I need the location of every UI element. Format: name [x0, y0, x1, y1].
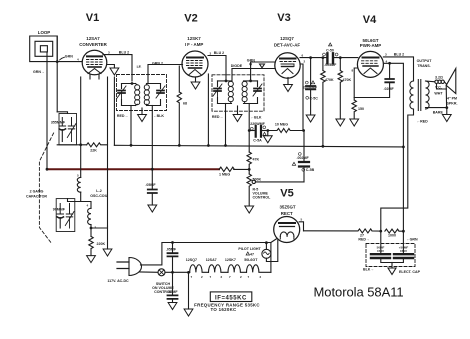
svg-text:CONTROL: CONTROL [253, 196, 272, 200]
IF transformer T1 shield box [117, 75, 167, 111]
wire V1 plate BLU to T1 [103, 55, 132, 81]
tube V2 12SK7 IF amp [182, 51, 208, 77]
line capacitor .05MF to ground [168, 295, 178, 299]
svg-text:DIODE: DIODE [231, 64, 243, 68]
ground V2 cathode [195, 77, 197, 82]
svg-text:C-5B: C-5B [306, 168, 315, 172]
node AVC line left end [46, 168, 49, 171]
svg-text:L-2: L-2 [96, 189, 101, 193]
wire plug upper to bus [141, 243, 271, 265]
node B+ bus right end [402, 146, 405, 149]
wire T2 secondary bottom BLK [248, 104, 250, 153]
svg-text:GRN→: GRN→ [33, 70, 45, 74]
svg-text:C-50: C-50 [326, 49, 334, 53]
wire V1 osc grid down [80, 77, 82, 177]
svg-text:470K: 470K [343, 78, 352, 82]
wire T1 secondary bottom BLK to AVC [151, 106, 153, 190]
svg-text:220WMF: 220WMF [250, 122, 265, 126]
ground V2 [191, 82, 200, 89]
resistor 10 MEG [268, 129, 303, 133]
2-gang tuning: antenna section 355MMF [59, 114, 77, 145]
node AC bus / line capacitor [171, 241, 174, 244]
svg-text:BARE: BARE [433, 111, 444, 115]
svg-text:500K: 500K [253, 178, 262, 182]
resistor 27 [304, 229, 381, 233]
wire V4 plate BLU to output transformer [383, 57, 413, 81]
capacitor C-50 .005MF [327, 53, 333, 63]
wire loop bottom to AVC line [46, 62, 48, 170]
capacitor C-5C 200MMF [310, 58, 312, 86]
pin number labels [77, 51, 388, 279]
ground speaker frame [442, 115, 451, 122]
ground V4 cathode [350, 119, 359, 126]
svg-text:22K: 22K [90, 149, 97, 153]
svg-text:←GRN: ←GRN [406, 238, 418, 242]
svg-text:.05MF: .05MF [145, 183, 156, 187]
electrolytic +50MF [394, 254, 413, 258]
svg-text:OSC-COIL: OSC-COIL [90, 194, 108, 198]
wire V5 cathode to filter [299, 222, 303, 231]
svg-text:68: 68 [183, 102, 187, 106]
svg-text:I.F.: I.F. [137, 65, 142, 69]
svg-text:3.2Ω: 3.2Ω [435, 75, 443, 79]
wire V2 plate BLU to T2 [208, 56, 226, 81]
svg-text:TRANS.: TRANS. [417, 64, 430, 68]
svg-text:←BLK: ←BLK [153, 114, 164, 118]
svg-text:90MMF: 90MMF [53, 208, 66, 212]
node 470K grid top [339, 56, 342, 59]
svg-text:12SA7: 12SA7 [86, 36, 100, 41]
svg-text:RED→: RED→ [212, 115, 223, 119]
svg-text:ELECT. CAP: ELECT. CAP [399, 270, 421, 274]
wire V2 screen to B+ bus [207, 74, 209, 146]
speaker cone [446, 69, 456, 94]
svg-text:12SQ7: 12SQ7 [186, 258, 197, 262]
resistor 1000 [385, 229, 404, 233]
wire V4 screen to B+ [384, 63, 403, 231]
svg-text:12SK7: 12SK7 [187, 36, 201, 41]
svg-text:WHT: WHT [434, 91, 443, 95]
svg-text:200MMF: 200MMF [303, 85, 318, 89]
node AVC / volume control [248, 168, 251, 171]
capacitor C-5A 220MMF [249, 130, 254, 132]
pilot light [265, 243, 267, 250]
svg-text:470K: 470K [325, 78, 334, 82]
node B+ after filter [402, 230, 405, 233]
heater filament 12SA7 [209, 265, 229, 273]
wire heater string to ground [188, 272, 190, 309]
svg-text:GRN: GRN [65, 55, 73, 59]
wire V3 second diode line [232, 69, 275, 81]
B+ bus [114, 145, 403, 147]
line capacitor .05MF series [172, 243, 174, 254]
svg-text:35Z5GT: 35Z5GT [279, 205, 295, 210]
ground T2 center [233, 115, 242, 122]
wire V1 osc anode down [107, 77, 109, 226]
svg-text:12SK7: 12SK7 [225, 258, 236, 262]
tube V4 50L6GT pwr amp [357, 51, 383, 77]
svg-text:DET-AVC-AF: DET-AVC-AF [274, 42, 301, 47]
node V2 screen on B+ bus [207, 144, 210, 147]
svg-text:V.C.: V.C. [435, 86, 442, 90]
ground T2 center tap [237, 106, 239, 115]
IF frequency box [194, 292, 260, 312]
T1 primary: trimmer capacitor [117, 84, 136, 106]
svg-text:RED→: RED→ [117, 114, 128, 118]
heater filament 12SK7 [228, 265, 247, 273]
ground at V1 cathode [110, 68, 119, 75]
svg-text:←BLK: ←BLK [251, 116, 262, 120]
2-gang tuning: oscillator section 90MMF [56, 199, 75, 232]
node C-5A left [248, 129, 251, 132]
svg-text:GRN 2: GRN 2 [152, 61, 163, 65]
ground at V1 [107, 65, 115, 69]
tube V5 35Z5GT rectifier [274, 217, 300, 243]
svg-text:RED→: RED→ [358, 238, 369, 242]
resistor 68 ohm [177, 66, 181, 145]
svg-text:SPKR.: SPKR. [447, 102, 458, 106]
svg-text:TO 1620KC: TO 1620KC [210, 307, 237, 312]
ground volume control [245, 206, 254, 213]
svg-text:220K: 220K [97, 242, 106, 246]
wire V1 heater pins [90, 75, 99, 80]
node T1 primary on B+ bus [130, 144, 133, 147]
wire bus into V5 filament pin [271, 239, 277, 243]
svg-text:10 MEG: 10 MEG [275, 122, 288, 126]
capacitor C-5B .002MF [303, 167, 305, 182]
switch on volume control [158, 269, 165, 276]
T2 secondary: trimmer capacitor [244, 81, 263, 104]
svg-text:BLU 2: BLU 2 [394, 53, 404, 57]
svg-text:V1: V1 [86, 12, 99, 24]
svg-text:IF=455KC: IF=455KC [215, 295, 247, 301]
tube V3 12SQ7 det-avc-af [275, 53, 300, 78]
svg-text:.005MF: .005MF [324, 63, 337, 67]
svg-text:V4: V4 [363, 14, 377, 26]
svg-text:C-5C: C-5C [310, 97, 319, 101]
svg-text:CONVERTER: CONVERTER [79, 42, 107, 47]
electrolytic 50MF [371, 254, 390, 258]
svg-text:12SQ7: 12SQ7 [280, 36, 294, 41]
node AVC / T1 secondary return [151, 168, 154, 171]
wire voice coil return WHT [437, 84, 447, 90]
svg-text:1 MEG: 1 MEG [219, 173, 230, 177]
svg-text:V3: V3 [277, 12, 290, 24]
oscillator coil L-2 upper winding [77, 177, 80, 192]
node T2 primary on B+ bus [224, 144, 227, 147]
resistor 1 MEG [219, 167, 249, 171]
heater string line [165, 271, 190, 273]
T1 secondary: trimmer capacitor [147, 84, 166, 106]
svg-text:50L6GT: 50L6GT [244, 258, 258, 262]
resistor 220K [89, 225, 93, 256]
IF transformer T2 shield box [212, 75, 264, 111]
marker arrow on GRN wire [260, 64, 265, 68]
wire speaker apex down [445, 85, 447, 107]
ground T1 center [138, 115, 147, 122]
capacitor .05MF AVC bypass [148, 190, 157, 194]
ground T1 center tap [141, 108, 143, 115]
svg-text:LOOP: LOOP [38, 30, 51, 35]
node 470K plate load top [322, 56, 325, 59]
heater filament 50L6GT [247, 265, 271, 273]
svg-text:4" PM: 4" PM [447, 97, 457, 101]
svg-text:2 GANG: 2 GANG [30, 190, 44, 194]
svg-text:CAPACITOR: CAPACITOR [26, 195, 47, 199]
node 22K left [79, 143, 82, 146]
svg-text:117V. AC-DC: 117V. AC-DC [107, 279, 129, 283]
node T2 primary top [225, 80, 228, 83]
potentiometer R-5 500K volume [247, 174, 251, 206]
resistor 47K [247, 152, 251, 174]
ground oscillator anode line [103, 249, 112, 256]
ground heater string [184, 309, 193, 316]
svg-text:BLK→: BLK→ [363, 268, 374, 272]
node heater line / line capacitor [171, 271, 174, 274]
drawn triangle and circled-number markers [329, 43, 332, 46]
ground below V3 [287, 78, 289, 85]
svg-text:PWR-AMP: PWR-AMP [360, 43, 382, 48]
svg-text:47: 47 [250, 252, 254, 256]
ground AVC bypass [148, 205, 157, 212]
wire T2 primary bottom RED to bus [225, 104, 227, 146]
svg-text:355MMF: 355MMF [51, 120, 66, 124]
node T1 primary feed [131, 82, 134, 85]
node L-2 bottom [90, 227, 93, 230]
node GRN junction [56, 60, 59, 63]
wire primary bottom RED to B+ [381, 109, 414, 231]
T2 primary winding [228, 81, 233, 103]
svg-text:12SA7: 12SA7 [206, 258, 217, 262]
ground 470K grid resistor [336, 119, 345, 126]
node speaker frame [445, 106, 448, 109]
svg-text:Motorola 58A11: Motorola 58A11 [314, 285, 404, 300]
ground C-5A node [263, 136, 272, 143]
tube V1 12SA7 converter [82, 50, 107, 75]
oscillator coil L-2 lower winding [88, 208, 91, 224]
output transformer primary [410, 80, 429, 111]
node 10MEG / C-5B [302, 129, 305, 132]
wire GRN to diode of V3 [251, 62, 276, 81]
wire V3 pin2 down to C-5B [300, 64, 303, 131]
svg-text:RECT: RECT [281, 211, 293, 216]
svg-text:PILOT LIGHT: PILOT LIGHT [238, 247, 261, 251]
svg-text:150V: 150V [377, 249, 384, 253]
AC plug [117, 262, 129, 269]
T2 primary: trimmer capacitor [213, 81, 232, 104]
node 470K on B+ bus [322, 145, 325, 148]
AVC red line [47, 168, 219, 170]
wire T1 primary bottom RED to B+ bus [130, 106, 132, 146]
node T2 secondary top [249, 80, 252, 83]
heater filament 12SQ7 [190, 265, 209, 273]
voice coil [426, 80, 435, 83]
node .02MF tap [388, 62, 391, 65]
wire V4 cathode, resistor 150 [352, 68, 358, 119]
node C-5A right [266, 129, 269, 132]
svg-text:.02MF: .02MF [384, 87, 395, 91]
svg-text:V2: V2 [184, 13, 197, 25]
svg-text:.002MF: .002MF [297, 156, 310, 160]
svg-text:.05MF: .05MF [167, 290, 178, 294]
svg-text:47K: 47K [253, 158, 260, 162]
svg-text:150: 150 [358, 107, 364, 111]
node heater string B- [187, 271, 190, 274]
svg-text:1000: 1000 [388, 234, 396, 238]
wire loop to V1 grid [57, 36, 82, 112]
T1 secondary winding [144, 84, 149, 106]
ground V3 cathode [284, 85, 293, 92]
wire T1 secondary top GRN to V2 grid [148, 65, 183, 84]
svg-text:150V: 150V [400, 249, 407, 253]
wire V3 plate line [300, 57, 327, 59]
svg-text:BLU 2: BLU 2 [119, 51, 129, 55]
svg-text:V5: V5 [280, 188, 293, 200]
chassis symbol [388, 268, 396, 275]
T2 secondary winding [242, 81, 247, 103]
svg-text:OUTPUT: OUTPUT [417, 59, 433, 63]
ground C-5C [306, 115, 315, 122]
node 27 ohm / 1000 ohm junction [379, 230, 382, 233]
node 68 ohm on B+ bus [178, 144, 181, 147]
svg-text:C-5A: C-5A [253, 138, 262, 142]
wire secondary bottom BARE to ground [426, 108, 447, 115]
svg-text:BLU 2: BLU 2 [214, 51, 224, 55]
loop antenna L1 [30, 36, 58, 62]
wire tuning bottom, resistor 22K [57, 144, 86, 146]
svg-text:←RED: ←RED [417, 119, 429, 123]
wire plug lower to switch [140, 271, 159, 273]
electrolytic filter capacitor box [366, 244, 415, 267]
svg-text:GRN: GRN [247, 59, 255, 63]
gang mechanical dashed link [39, 133, 53, 244]
node V3 plate / C-5C [309, 56, 312, 59]
svg-text:I F - AMP: I F - AMP [185, 42, 204, 47]
T1 primary winding [135, 84, 140, 106]
node pilot light tap [265, 241, 268, 244]
svg-text:.05MF: .05MF [166, 248, 177, 252]
ground line capacitor [168, 303, 177, 310]
ground 220K [87, 256, 96, 263]
